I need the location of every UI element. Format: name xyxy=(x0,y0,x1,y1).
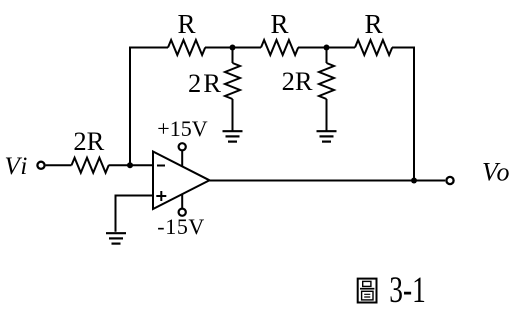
caption glyph 圖 (figure) xyxy=(358,279,377,303)
terminal Vi (input terminal circle) xyxy=(37,162,44,169)
svg-text:2R: 2R xyxy=(282,66,313,96)
wire: node B down to shunt resistor xyxy=(326,48,328,64)
terminal Vo (output terminal circle) xyxy=(446,177,453,184)
wire: node B to R3 xyxy=(327,47,356,49)
wire: node A to R2 xyxy=(233,47,262,49)
resistor 2R (shunt 2) xyxy=(319,63,334,99)
op-amp U1 plus input mark xyxy=(156,191,166,201)
wire: shunt 1 to ground xyxy=(232,99,234,131)
svg-text:Vo: Vo xyxy=(482,158,511,187)
svg-text:R: R xyxy=(364,9,382,39)
resistor 2R (shunt 1) xyxy=(225,63,240,99)
svg-text:+15V: +15V xyxy=(157,116,207,141)
op-amp U1 xyxy=(153,152,210,210)
wire: op-amp output to output node and Vo terminal xyxy=(210,180,446,182)
svg-text:R: R xyxy=(177,9,195,39)
terminal +15V supply xyxy=(179,143,186,150)
ground (noninverting input) xyxy=(106,233,126,243)
wire: op-amp bottom edge to -15V terminal xyxy=(181,194,183,209)
wire: +15V terminal to op-amp top edge xyxy=(181,151,183,167)
wire: R2 to node B xyxy=(298,47,327,49)
svg-text:3-1: 3-1 xyxy=(389,270,426,310)
resistor R1 xyxy=(168,40,205,55)
node C inverting input (junction dot) xyxy=(127,162,133,168)
node A (junction dot) xyxy=(230,45,236,51)
svg-text:2R: 2R xyxy=(188,68,223,98)
resistor R2 xyxy=(261,40,298,55)
svg-text:R: R xyxy=(270,9,288,39)
svg-text:2R: 2R xyxy=(73,126,104,156)
node B (junction dot) xyxy=(324,45,330,51)
wire: R1 to node A xyxy=(205,47,233,49)
wire: input resistor to inverting node xyxy=(109,164,131,166)
terminal -15V supply xyxy=(179,209,186,216)
wire: noninverting input to ground xyxy=(116,196,154,232)
op-amp U1 minus input mark xyxy=(157,165,165,167)
wire: R3 to top-right corner down to output node xyxy=(392,48,414,181)
wire: node A down to shunt resistor xyxy=(232,48,234,64)
svg-text:Vi: Vi xyxy=(5,153,30,180)
ground (shunt 2) xyxy=(317,131,337,141)
resistor R3 xyxy=(355,40,392,55)
svg-text:-15V: -15V xyxy=(157,214,205,239)
node D output (junction dot) xyxy=(411,178,417,184)
wire: shunt 2 to ground xyxy=(326,99,328,131)
wire: left feedback branch (top-left corner of ladder down to inverting node) xyxy=(130,48,168,166)
resistor 2R (input) xyxy=(72,158,109,173)
wire: Vi terminal to input resistor xyxy=(46,164,72,166)
wire: inverting node to op-amp minus input xyxy=(130,164,153,166)
ground (shunt 1) xyxy=(223,131,243,141)
